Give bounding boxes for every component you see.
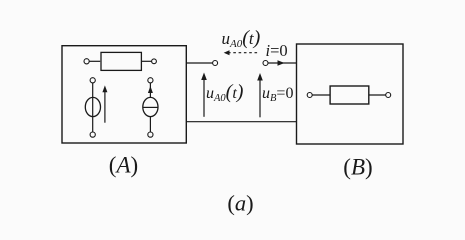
bottom wire between A and B bbox=[186, 121, 296, 123]
wire from A to terminal a bbox=[186, 62, 212, 64]
svg-text:uB=0: uB=0 bbox=[262, 85, 293, 104]
wire from terminal b to B with current arrow bbox=[268, 60, 297, 66]
svg-text:i=0: i=0 bbox=[266, 41, 288, 60]
terminal node a bbox=[213, 61, 218, 66]
reference arrowhead of IS bbox=[148, 86, 153, 93]
network box A bbox=[62, 46, 186, 143]
dashed arrow uA0(t) bbox=[224, 50, 258, 55]
voltage arrow uB bbox=[257, 73, 263, 117]
terminal node b bbox=[263, 61, 268, 66]
network box B bbox=[297, 44, 404, 144]
resistor RB bbox=[307, 86, 391, 104]
reference arrow of US bbox=[102, 85, 107, 122]
svg-text:(a): (a) bbox=[227, 190, 253, 215]
current source IS bbox=[143, 78, 158, 137]
svg-text:uA0(t): uA0(t) bbox=[206, 81, 244, 104]
svg-text:(B): (B) bbox=[343, 154, 372, 179]
voltage arrow uA0 bbox=[201, 73, 207, 117]
svg-text:(A): (A) bbox=[109, 152, 138, 177]
voltage source US bbox=[85, 78, 100, 137]
resistor RA bbox=[84, 52, 156, 70]
